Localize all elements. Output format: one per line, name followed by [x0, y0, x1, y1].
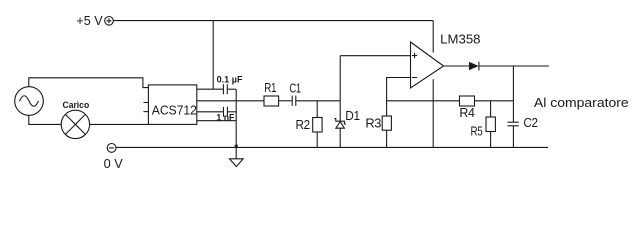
svg-text:R2: R2 — [296, 118, 311, 132]
svg-text:R1: R1 — [264, 81, 276, 95]
svg-text:D1: D1 — [345, 109, 360, 123]
svg-text:0.1 µF: 0.1 µF — [217, 74, 243, 84]
svg-text:+5 V: +5 V — [76, 13, 103, 28]
svg-text:Carico: Carico — [63, 100, 90, 110]
svg-text:Al comparatore: Al comparatore — [534, 95, 629, 110]
svg-text:1 nF: 1 nF — [216, 113, 234, 123]
svg-text:R3: R3 — [365, 116, 381, 130]
svg-text:C2: C2 — [523, 116, 538, 130]
svg-text:R4: R4 — [459, 106, 475, 120]
svg-text:LM358: LM358 — [440, 32, 480, 47]
svg-text:R5: R5 — [471, 124, 483, 138]
svg-text:ACS712: ACS712 — [152, 102, 197, 117]
svg-text:0 V: 0 V — [104, 156, 123, 171]
svg-text:C1: C1 — [289, 82, 301, 96]
